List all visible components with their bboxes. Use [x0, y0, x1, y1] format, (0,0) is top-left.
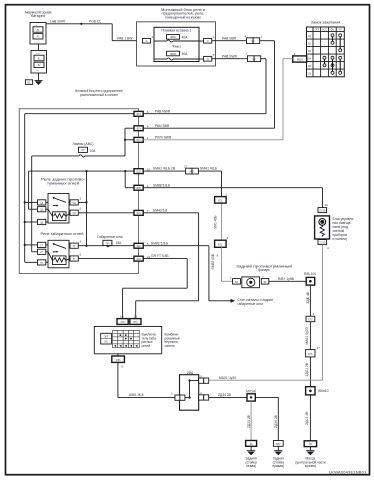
wire SM82 fused tail	[143, 241, 215, 300]
svg-text:MA01 Чу20: MA01 Чу20	[305, 327, 309, 344]
svg-text:огней: огней	[142, 344, 151, 348]
svg-text:PAB SWR: PAB SWR	[222, 54, 238, 58]
ground wire left gray	[247, 401, 251, 440]
lighting switch box	[94, 326, 161, 353]
illumination control unit	[315, 216, 330, 239]
wire to switch pin12 and stop lamps branch	[136, 301, 231, 319]
svg-text:LKWA0049E1NB01: LKWA0049E1NB01	[329, 469, 367, 474]
svg-text:помещенный на кузове: помещенный на кузове	[165, 15, 201, 19]
illumination ground wire gray	[208, 245, 322, 381]
svg-text:2П1: 2П1	[120, 322, 125, 324]
svg-text:17: 17	[184, 165, 188, 169]
wire to vertical drop 2	[261, 59, 266, 114]
ignition switch table	[307, 27, 345, 77]
svg-text:Б20: Б20	[137, 188, 142, 190]
relay rear fog label	[41, 178, 85, 186]
wire PAB NWR row1	[143, 109, 266, 113]
svg-text:Б20: Б20	[137, 172, 142, 174]
wire PAN SBR row2	[143, 124, 274, 128]
switch pin 12 connector	[130, 315, 141, 325]
svg-text:5: 5	[213, 53, 215, 57]
connector pin 2 right of block upper	[199, 35, 215, 43]
lighting switch positions box	[101, 333, 112, 344]
svg-text:2: 2	[213, 35, 215, 39]
JC left pin	[171, 391, 185, 400]
relay R2 pin 1 left	[24, 242, 48, 247]
svg-text:SMA1 Ч8,Б 2B: SMA1 Ч8,Б 2B	[153, 167, 176, 171]
fuse lamps 10A	[32, 147, 125, 252]
illumination unit label	[333, 217, 355, 241]
svg-text:PGD CL: PGD CL	[89, 19, 101, 23]
wire to vertical drop 1	[260, 41, 275, 129]
svg-text:5Д: 5Д	[73, 203, 76, 205]
svg-text:SM82 45Б: SM82 45Б	[211, 254, 215, 269]
svg-text:0BFB: 0BFB	[170, 54, 176, 56]
svg-text:15A: 15A	[116, 241, 123, 245]
wire fog ground vertical	[306, 285, 310, 441]
svg-text:ZДБ 4B: ZДБ 4B	[306, 291, 310, 303]
svg-text:М503: М503	[297, 59, 303, 61]
illumination top connector	[318, 208, 327, 213]
svg-text:R/B+ 1у5B: R/B+ 1у5B	[278, 277, 295, 281]
svg-text:3: 3	[313, 312, 315, 316]
svg-text:М/Сяб: М/Сяб	[246, 390, 256, 394]
svg-text:1: 1	[171, 391, 173, 395]
svg-text:M31: M31	[190, 171, 195, 173]
svg-text:2: 2	[262, 275, 264, 279]
svg-text:7: 7	[246, 52, 248, 56]
wire top feed inside box	[25, 114, 134, 263]
relay R2 pin out coil	[70, 252, 134, 261]
ground connector M57	[273, 441, 283, 447]
inline connector M1/E6	[245, 34, 263, 43]
svg-text:1: 1	[261, 34, 263, 38]
svg-text:Б19: Б19	[137, 129, 142, 131]
svg-text:2П1: 2П1	[133, 322, 138, 324]
connector on fog ground wire 1	[306, 312, 315, 322]
relay R1 pin 2 left	[29, 207, 48, 212]
relay R2 pin 3 left	[25, 260, 48, 265]
svg-text:Б19: Б19	[137, 114, 142, 116]
svg-text:SM82 5,8,Б: SM82 5,8,Б	[151, 241, 168, 245]
svg-text:6: 6	[80, 207, 82, 211]
switch output connector G58	[112, 354, 125, 369]
battery upper box	[30, 23, 46, 45]
arrow to stop lamps	[231, 298, 274, 306]
fusible link block label	[161, 8, 205, 19]
wire ZD34 to ground	[209, 393, 247, 397]
svg-text:W5н10: W5н10	[318, 389, 329, 393]
wire PRS SWR row3 gray	[143, 135, 283, 139]
connector E pin 1 left of block	[142, 35, 153, 43]
svg-text:ON: ON	[104, 342, 108, 344]
svg-text:ACC: ACC	[322, 29, 327, 32]
svg-text:40A: 40A	[182, 36, 189, 40]
wire switch to JC	[118, 362, 175, 397]
wire SMA1 to fog feed	[143, 165, 221, 241]
junction connector RB	[304, 272, 316, 285]
svg-text:OFF: OFF	[104, 336, 109, 338]
svg-text:SM88 5,8,Б: SM88 5,8,Б	[153, 183, 170, 187]
svg-text:Б22: Б22	[137, 259, 142, 261]
wire battery to lower box	[38, 44, 40, 51]
svg-text:OFF: OFF	[315, 30, 320, 32]
svg-text:Плавкая вставка 1: Плавкая вставка 1	[162, 28, 192, 32]
wire bus to B10	[29, 170, 134, 209]
lighting switch table	[113, 330, 140, 348]
svg-text:расположенный в салоне: расположенный в салоне	[80, 93, 118, 97]
svg-text:1: 1	[152, 35, 154, 39]
svg-text:левая): левая)	[246, 464, 256, 468]
battery lower box	[31, 51, 47, 74]
svg-text:ZД34 2B: ZД34 2B	[274, 414, 278, 428]
connector E5	[25, 80, 32, 85]
svg-text:PAB SBR: PAB SBR	[222, 36, 237, 40]
rear fog lamp label	[236, 264, 292, 272]
svg-text:4: 4	[200, 391, 202, 395]
svg-text:Реле габаритных огней: Реле габаритных огней	[41, 232, 84, 236]
connector B pin 4b	[134, 184, 149, 190]
connector B row3 pin 1	[134, 136, 149, 142]
ground connector B6	[246, 441, 257, 447]
svg-text:Б71: Б71	[218, 201, 223, 203]
svg-text:ZД34 2B: ZД34 2B	[218, 393, 232, 397]
svg-text:R/B-100: R/B-100	[304, 272, 316, 276]
wire SM43 relay coil to switch	[143, 208, 198, 300]
svg-text:ON: ON	[331, 30, 335, 32]
lighting switch dots	[114, 334, 137, 347]
wire to switch pin10	[123, 288, 188, 318]
joint connector JC box	[180, 375, 199, 411]
fusible link inner box	[154, 27, 199, 61]
JC inner wiring	[185, 379, 199, 398]
ground left label	[245, 457, 256, 469]
connector B pin 22	[134, 255, 151, 261]
svg-text:Б21: Б21	[137, 213, 142, 215]
ground symbol right	[306, 447, 314, 456]
svg-text:LAB 300R: LAB 300R	[50, 19, 66, 23]
wire LAB 300R / PGD CL	[46, 19, 142, 40]
svg-text:SM1 45Б: SM1 45Б	[214, 215, 218, 229]
svg-text:4: 4	[294, 52, 296, 56]
ground battery	[35, 81, 43, 86]
ground wire middle	[274, 397, 278, 440]
relay R2 tail	[48, 240, 70, 267]
junction connector M/C6	[246, 390, 278, 401]
fusible link F 40A	[154, 35, 199, 43]
ground symbol left	[247, 446, 255, 455]
fuse tail 15A	[100, 240, 134, 246]
connector B71 on fog wire	[215, 192, 228, 203]
svg-text:4: 4	[327, 246, 329, 250]
relay R1 pin 3 left	[24, 219, 48, 224]
wire to ground	[38, 73, 40, 81]
relay R2 pin out top	[70, 240, 100, 249]
illumination control unit feed	[323, 188, 329, 208]
relay R1 pin out coil	[70, 207, 134, 216]
svg-text:3: 3	[80, 196, 82, 200]
svg-text:Б72: Б72	[218, 244, 223, 246]
svg-text:ПР: ПР	[106, 243, 110, 245]
ground right label	[295, 457, 326, 469]
wire SM88 illumination	[143, 183, 322, 187]
wire GR YT tail coil	[143, 254, 187, 288]
svg-text:PAB 1 BW: PAB 1 BW	[117, 36, 133, 40]
svg-text:Замок зажигания: Замок зажигания	[311, 20, 341, 24]
svg-text:1: 1	[230, 275, 232, 279]
svg-text:SM43 5,8: SM43 5,8	[153, 208, 167, 212]
svg-text:Б22: Б22	[137, 246, 142, 248]
ignition connector pin 4	[293, 52, 307, 62]
svg-text:ПР: ПР	[81, 150, 85, 152]
svg-text:чатель: чатель	[165, 344, 176, 348]
wire PAB SBR upper	[212, 36, 247, 40]
svg-text:Ж58: Ж58	[116, 360, 121, 362]
cabin fuse-relay box label	[75, 89, 123, 97]
JC right pin upper	[199, 375, 209, 384]
connector B pin 7	[134, 209, 149, 215]
svg-text:Б75: Б75	[308, 319, 313, 321]
svg-text:2Д: 2Д	[40, 210, 43, 212]
svg-text:3Д: 3Д	[40, 222, 43, 224]
svg-text:Б19: Б19	[137, 140, 142, 142]
wire relay outputs link	[85, 170, 87, 247]
svg-text:21-30: 21-30	[319, 211, 326, 213]
svg-text:PR/S SWR: PR/S SWR	[155, 135, 172, 139]
svg-text:4: 4	[245, 34, 247, 38]
wire PAB SWR lower	[212, 54, 248, 58]
svg-text:батарея: батарея	[31, 14, 45, 18]
JC right pin lower	[199, 391, 209, 400]
svg-text:0BFA: 0BFA	[170, 36, 176, 39]
ground middle label	[272, 457, 284, 469]
svg-text:PAN SBR: PAN SBR	[155, 124, 170, 128]
svg-text:6: 6	[80, 252, 82, 256]
connector B72 on fog wire	[215, 236, 233, 281]
svg-text:ZДC1 2B: ZДC1 2B	[305, 362, 309, 376]
svg-text:ZД33 2B: ZД33 2B	[247, 414, 251, 428]
connector on fog ground wire 2 pin 17	[305, 327, 320, 376]
fuse F 30A	[154, 51, 199, 60]
connector B pin 5	[134, 242, 149, 248]
ground symbol middle	[274, 446, 282, 455]
svg-text:фонарь: фонарь	[258, 268, 270, 272]
svg-text:6: 6	[122, 364, 124, 368]
battery GB label	[25, 10, 52, 18]
connector B row2 pin 4	[134, 124, 149, 130]
svg-text:GR YT 5,8Б: GR YT 5,8Б	[151, 254, 169, 258]
svg-text:правая): правая)	[272, 464, 284, 468]
connector B row1 pin 6	[134, 110, 149, 116]
fusible link block box	[137, 22, 216, 66]
svg-text:Габаритные огни: Габаритные огни	[98, 235, 123, 239]
svg-text:и панели): и панели)	[333, 237, 348, 241]
ground connector J5	[304, 441, 316, 447]
svg-text:Б76: Б76	[308, 354, 313, 356]
illumination bottom connector	[318, 240, 329, 250]
svg-text:Лампы (АВС): Лампы (АВС)	[73, 142, 94, 146]
svg-text:MA01 Чу20: MA01 Чу20	[219, 376, 236, 380]
ignition table contacts	[323, 34, 342, 75]
junction connector W5	[305, 387, 328, 425]
svg-text:6Д: 6Д	[73, 213, 76, 215]
svg-text:17: 17	[317, 346, 321, 350]
inline connector M2/E7	[246, 52, 261, 61]
svg-text:ZДC1 2B: ZДC1 2B	[305, 411, 309, 425]
relay R1 rear fog	[48, 194, 70, 224]
svg-text:10A: 10A	[90, 149, 97, 153]
connector B pin 10	[134, 167, 151, 173]
lighting switch inner label	[142, 333, 157, 348]
rear fog lamp	[230, 275, 269, 287]
wire fog lamp to junction	[269, 277, 306, 281]
svg-text:кузова): кузова)	[305, 464, 316, 468]
combination switch label	[165, 333, 180, 348]
relay R1 pin 1 left	[24, 200, 48, 205]
switch pin 10 connector	[117, 315, 128, 325]
svg-text:1: 1	[226, 192, 228, 196]
svg-text:3: 3	[80, 240, 82, 244]
svg-text:М57: М57	[276, 444, 281, 446]
svg-text:Фьюз: Фьюз	[172, 45, 181, 49]
wire fuse out to row2 row3	[124, 128, 134, 156]
cabin fuse-relay box	[19, 109, 138, 274]
svg-text:туманных огней: туманных огней	[47, 181, 79, 185]
svg-text:21-30: 21-30	[319, 243, 326, 245]
svg-text:16: 16	[325, 203, 329, 207]
svg-text:габаритные огни: габаритные огни	[238, 302, 264, 306]
svg-text:1Д: 1Д	[40, 203, 43, 205]
svg-text:2: 2	[227, 236, 229, 240]
relay R1 pin out top	[70, 196, 87, 205]
svg-text:9: 9	[217, 254, 219, 258]
svg-text:SMA1 Ч8,Б: SMA1 Ч8,Б	[200, 167, 217, 171]
relay R2 pin 2 left	[32, 249, 48, 254]
wire ignition ACC feed gray	[283, 59, 293, 140]
svg-text:PAB NWR: PAB NWR	[155, 109, 171, 113]
svg-text:30A: 30A	[182, 52, 189, 56]
svg-text:A501 Ж,8: A501 Ж,8	[129, 393, 144, 397]
connector pin 5 right of block lower	[199, 53, 215, 61]
